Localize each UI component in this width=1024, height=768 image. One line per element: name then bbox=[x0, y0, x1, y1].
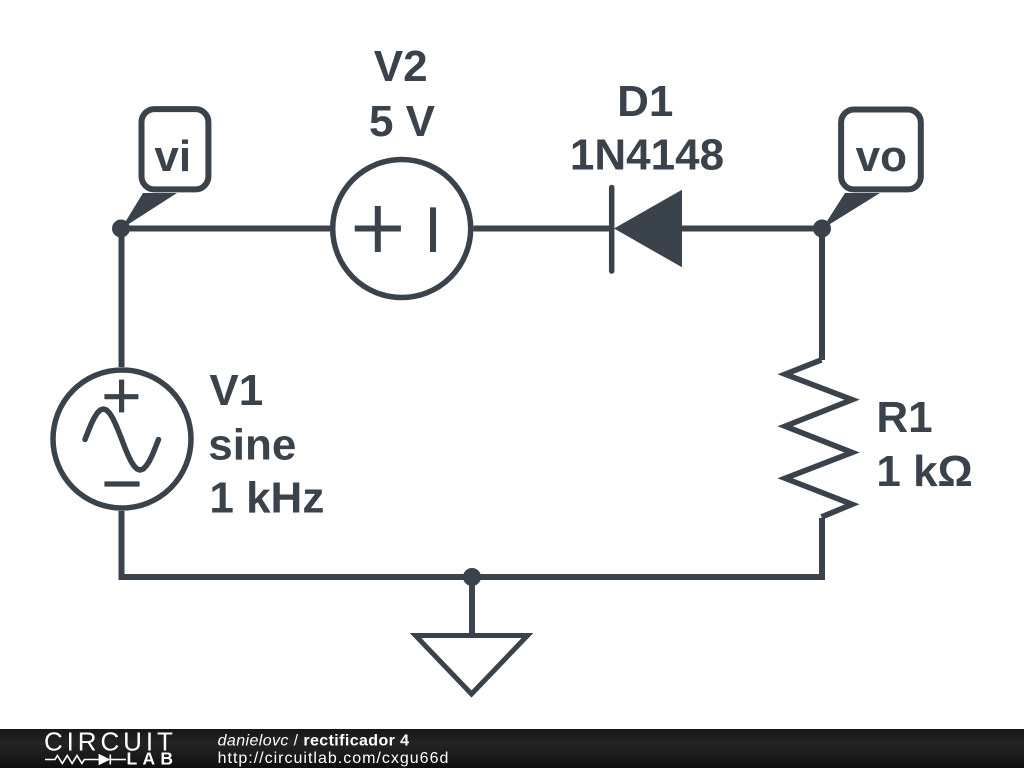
svg-text:1 kHz: 1 kHz bbox=[209, 474, 324, 523]
svg-text:V1: V1 bbox=[209, 366, 263, 415]
svg-text:sine: sine bbox=[208, 421, 296, 470]
svg-text:1 kΩ: 1 kΩ bbox=[876, 447, 972, 496]
svg-text:V2: V2 bbox=[374, 42, 428, 91]
svg-text:http://circuitlab.com/cxgu66d: http://circuitlab.com/cxgu66d bbox=[218, 750, 450, 767]
svg-text:vi: vi bbox=[154, 132, 191, 181]
svg-text:danielovc / rectificador 4: danielovc / rectificador 4 bbox=[218, 732, 410, 749]
svg-text:vo: vo bbox=[856, 132, 907, 181]
svg-text:1N4148: 1N4148 bbox=[570, 131, 724, 180]
svg-text:LAB: LAB bbox=[127, 749, 179, 768]
svg-text:5 V: 5 V bbox=[369, 97, 436, 146]
svg-text:R1: R1 bbox=[876, 393, 932, 442]
svg-text:D1: D1 bbox=[617, 77, 673, 126]
